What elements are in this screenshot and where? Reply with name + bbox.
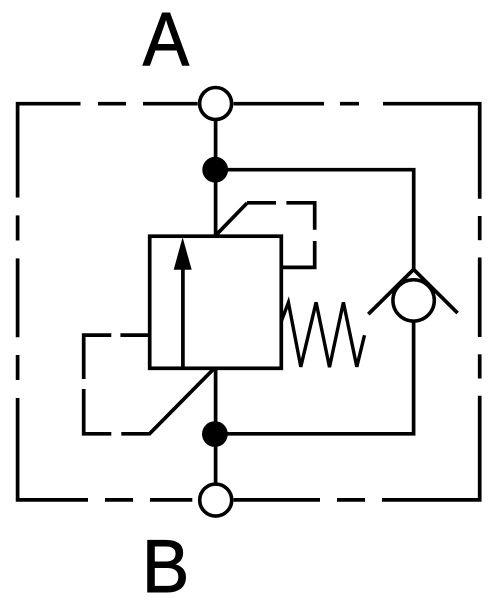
svg-text:B: B (142, 524, 189, 600)
svg-text:A: A (143, 0, 190, 82)
